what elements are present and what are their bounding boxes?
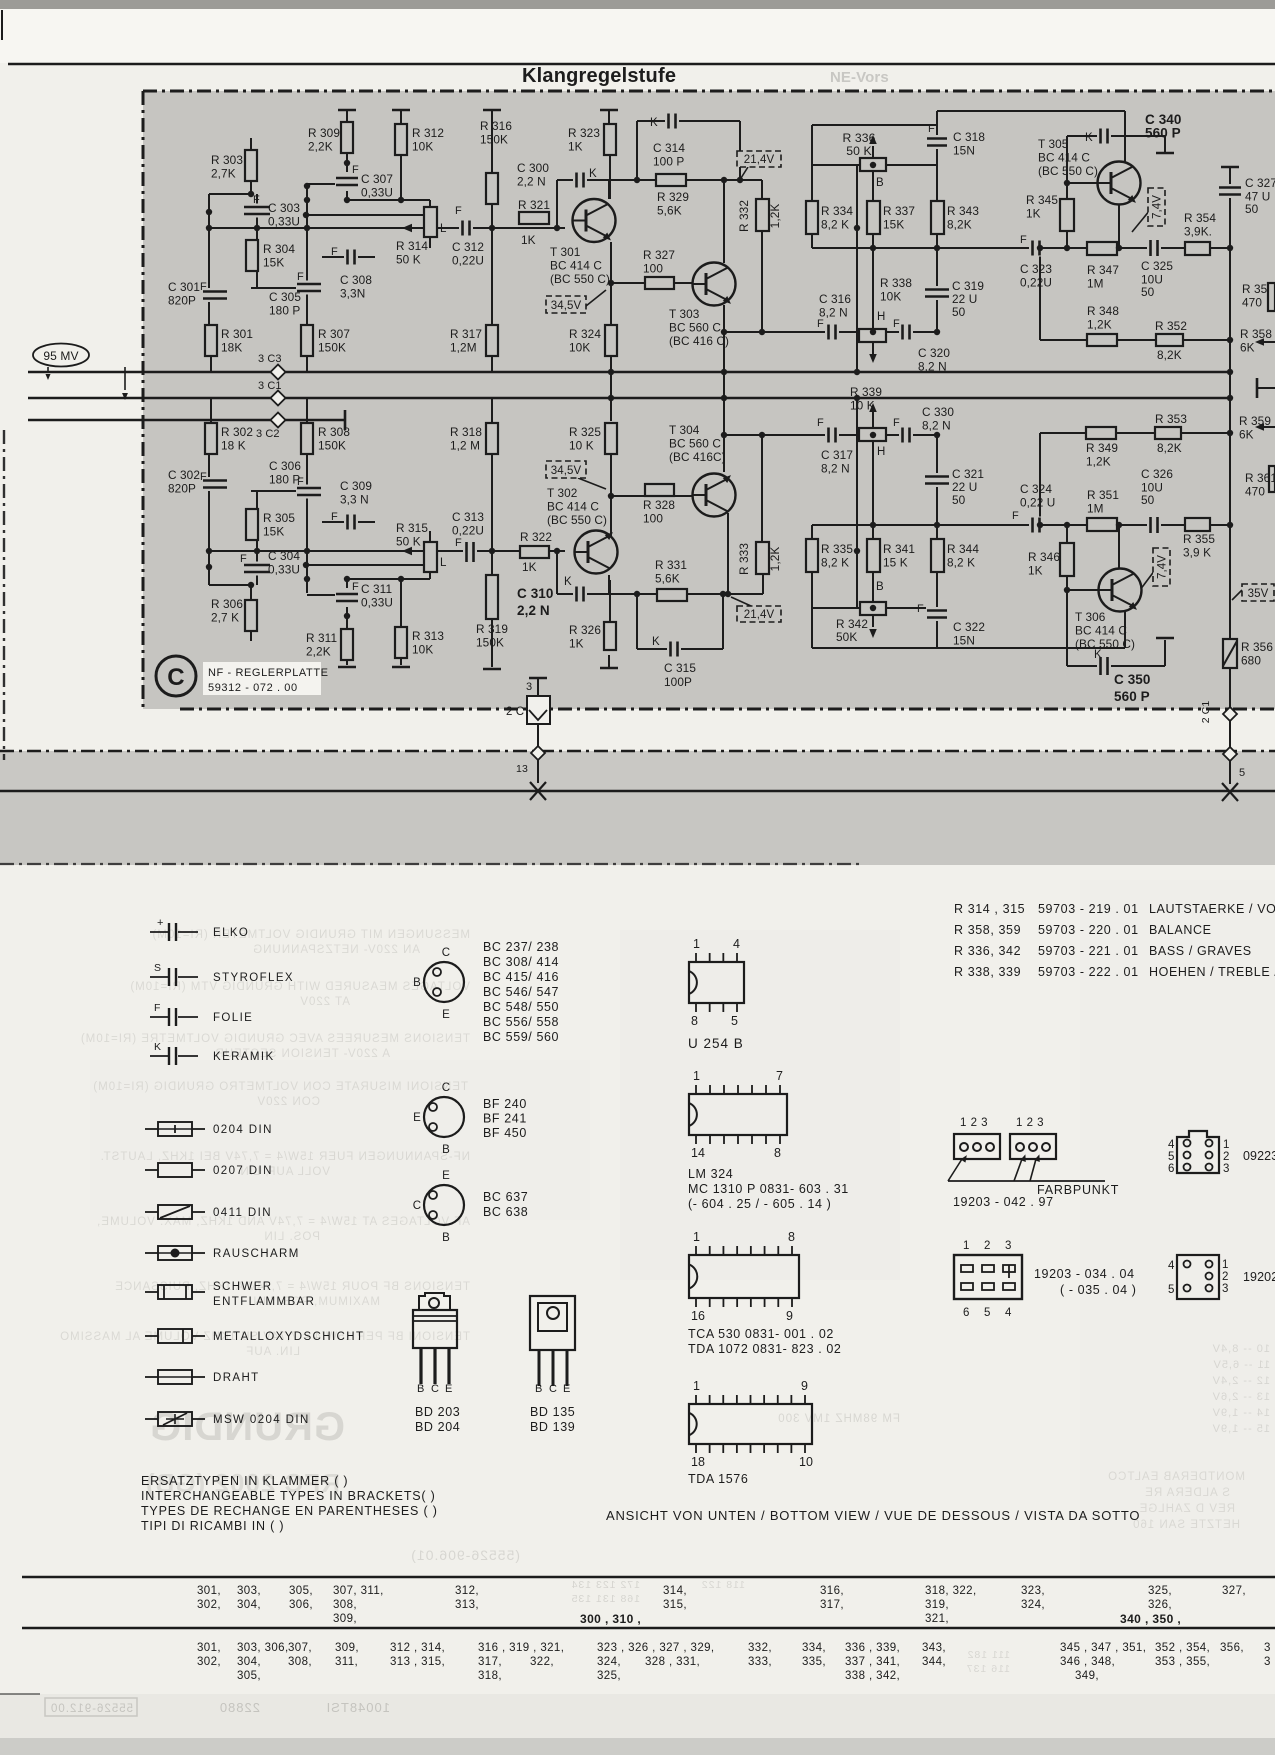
- svg-text:8: 8: [691, 1014, 698, 1028]
- svg-text:353 , 355,: 353 , 355,: [1155, 1656, 1210, 1668]
- svg-text:C 312: C 312: [452, 240, 484, 254]
- svg-text:T 303: T 303: [669, 307, 700, 321]
- svg-text:C 303: C 303: [268, 201, 300, 215]
- svg-text:BF 240: BF 240: [483, 1097, 527, 1111]
- svg-text:8,2 K: 8,2 K: [821, 218, 849, 232]
- svg-text:19203 - 042 . 97: 19203 - 042 . 97: [953, 1195, 1054, 1209]
- svg-text:0,22 U: 0,22 U: [1020, 496, 1055, 510]
- svg-text:9: 9: [801, 1379, 808, 1393]
- svg-text:BC 559/ 560: BC 559/ 560: [483, 1030, 559, 1044]
- svg-text:POS. LIN: POS. LIN: [263, 1231, 320, 1243]
- svg-text:R 309: R 309: [308, 126, 340, 140]
- svg-text:R 322: R 322: [520, 530, 552, 544]
- svg-text:BD 139: BD 139: [530, 1420, 575, 1434]
- svg-text:1K: 1K: [569, 637, 584, 651]
- svg-text:TENSIONS MESUREES AVEC GRUNDIG: TENSIONS MESUREES AVEC GRUNDIG VOLTMETRE…: [80, 1033, 470, 1045]
- svg-text:19202: 19202: [1243, 1270, 1275, 1284]
- svg-text:1,2K: 1,2K: [768, 547, 782, 572]
- svg-text:349,: 349,: [1075, 1670, 1099, 1682]
- svg-text:09223 -: 09223 -: [1243, 1149, 1275, 1163]
- svg-text:8,2 N: 8,2 N: [918, 360, 947, 374]
- svg-text:340 , 350 ,: 340 , 350 ,: [1120, 1612, 1181, 1626]
- svg-text:BC 560 C: BC 560 C: [669, 437, 721, 451]
- svg-text:8,2K: 8,2K: [1157, 441, 1182, 455]
- svg-text:MONTDERAB EALTCO: MONTDERAB EALTCO: [1107, 1471, 1245, 1483]
- svg-text:50: 50: [952, 305, 966, 319]
- svg-text:R 314: R 314: [396, 239, 428, 253]
- svg-text:95 MV: 95 MV: [43, 349, 78, 363]
- svg-text:2,7K: 2,7K: [211, 167, 236, 181]
- svg-text:(BC 550 C): (BC 550 C): [550, 272, 610, 286]
- svg-text:C 306: C 306: [269, 459, 301, 473]
- svg-text:2,7 K: 2,7 K: [211, 611, 239, 625]
- svg-text:301,: 301,: [197, 1585, 221, 1597]
- svg-text:50: 50: [952, 493, 966, 507]
- svg-text:327,: 327,: [1222, 1585, 1246, 1597]
- svg-text:302,: 302,: [197, 1599, 221, 1611]
- svg-text:304,: 304,: [237, 1656, 261, 1668]
- svg-text:680: 680: [1241, 654, 1261, 668]
- svg-text:INTERCHANGEABLE TYPES IN BR: INTERCHANGEABLE TYPES IN BRACKETS( ): [141, 1489, 436, 1503]
- svg-text:1K: 1K: [1026, 207, 1041, 221]
- svg-text:21,4V: 21,4V: [744, 154, 775, 166]
- svg-text:R 307: R 307: [318, 327, 350, 341]
- svg-text:307, 311,: 307, 311,: [333, 1585, 384, 1597]
- svg-text:0,22U: 0,22U: [1020, 276, 1052, 290]
- svg-text:R 355: R 355: [1183, 532, 1215, 546]
- svg-text:2,2 N: 2,2 N: [517, 175, 546, 189]
- svg-text:R 325: R 325: [569, 425, 601, 439]
- svg-text:L: L: [440, 557, 447, 569]
- svg-text:1: 1: [1223, 1139, 1230, 1151]
- svg-text:15K: 15K: [263, 256, 284, 270]
- svg-text:F: F: [893, 318, 900, 330]
- svg-text:1 2 3: 1 2 3: [1016, 1117, 1044, 1129]
- svg-text:0,33U: 0,33U: [268, 215, 300, 229]
- svg-text:ENTFLAMMBAR: ENTFLAMMBAR: [213, 1296, 315, 1308]
- svg-text:F: F: [331, 511, 338, 523]
- svg-text:F: F: [893, 417, 900, 429]
- svg-text:333,: 333,: [748, 1656, 772, 1668]
- svg-text:2: 2: [1222, 1271, 1229, 1283]
- svg-text:13: 13: [516, 763, 528, 775]
- svg-text:304,: 304,: [237, 1599, 261, 1611]
- svg-text:172 123 134: 172 123 134: [571, 1579, 640, 1591]
- svg-text:AT 220V: AT 220V: [299, 996, 350, 1008]
- svg-text:8: 8: [788, 1230, 795, 1244]
- svg-text:R 311: R 311: [306, 631, 337, 645]
- svg-text:55526-912.00: 55526-912.00: [50, 1703, 133, 1715]
- svg-text:C: C: [442, 1082, 450, 1094]
- svg-text:317,: 317,: [478, 1656, 502, 1668]
- svg-text:R 312: R 312: [412, 126, 444, 140]
- svg-text:346 , 348,: 346 , 348,: [1060, 1656, 1115, 1668]
- svg-text:AF VOLTAGES AT 15W/4 = 7,74V A: AF VOLTAGES AT 15W/4 = 7,74V AND 1KHZ, M…: [96, 1216, 470, 1228]
- svg-text:560 P: 560 P: [1114, 689, 1150, 704]
- svg-text:335,: 335,: [802, 1656, 826, 1668]
- svg-text:BD 135: BD 135: [530, 1405, 575, 1419]
- svg-text:2 C: 2 C: [506, 706, 524, 718]
- svg-text:C 305: C 305: [269, 290, 301, 304]
- svg-text:METALLOXYDSCHICHT: METALLOXYDSCHICHT: [213, 1331, 364, 1343]
- svg-text:B: B: [876, 581, 884, 593]
- svg-text:R 347: R 347: [1087, 263, 1119, 277]
- svg-text:R 319: R 319: [476, 622, 508, 636]
- svg-text:15N: 15N: [953, 144, 975, 158]
- svg-text:4: 4: [1005, 1307, 1012, 1319]
- svg-text:1K: 1K: [522, 560, 537, 574]
- svg-text:5,6K: 5,6K: [657, 204, 682, 218]
- svg-text:R 333: R 333: [737, 543, 751, 575]
- svg-text:BD 204: BD 204: [415, 1420, 460, 1434]
- svg-text:C 320: C 320: [918, 346, 950, 360]
- svg-text:22880: 22880: [219, 1700, 260, 1715]
- svg-text:C: C: [167, 664, 184, 691]
- svg-text:R 341: R 341: [883, 542, 915, 556]
- svg-text:(BC 416C): (BC 416C): [669, 450, 726, 464]
- svg-text:5: 5: [731, 1014, 738, 1028]
- svg-text:50: 50: [1245, 202, 1259, 216]
- svg-text:R 343: R 343: [947, 204, 979, 218]
- svg-text:326,: 326,: [1148, 1599, 1172, 1611]
- svg-text:0204 DIN: 0204 DIN: [213, 1124, 273, 1136]
- svg-text:1,2K: 1,2K: [1086, 455, 1111, 469]
- svg-text:10 K: 10 K: [850, 399, 875, 413]
- svg-text:3,9 K: 3,9 K: [1183, 546, 1211, 560]
- svg-text:C 317: C 317: [821, 448, 853, 462]
- svg-text:318,: 318,: [478, 1670, 502, 1682]
- svg-text:100: 100: [643, 262, 663, 276]
- svg-text:C 326: C 326: [1141, 467, 1173, 481]
- svg-text:150K: 150K: [480, 133, 508, 147]
- svg-text:K: K: [652, 636, 660, 648]
- svg-text:C 319: C 319: [952, 279, 984, 293]
- svg-text:BF 450: BF 450: [483, 1126, 527, 1140]
- svg-text:FOLIE: FOLIE: [213, 1012, 253, 1024]
- svg-text:STYROFLEX: STYROFLEX: [213, 972, 294, 984]
- svg-text:ELKO: ELKO: [213, 927, 249, 939]
- svg-text:REV D ZAHLGE: REV D ZAHLGE: [1139, 1503, 1235, 1515]
- svg-text:306,: 306,: [289, 1599, 313, 1611]
- svg-text:8,2 K: 8,2 K: [947, 556, 975, 570]
- svg-text:13 -- 2,6V: 13 -- 2,6V: [1212, 1391, 1270, 1403]
- svg-text:BALANCE: BALANCE: [1149, 923, 1212, 937]
- svg-text:6K: 6K: [1239, 428, 1254, 442]
- svg-text:1K: 1K: [568, 140, 583, 154]
- svg-text:322,: 322,: [530, 1656, 554, 1668]
- svg-text:3,9K.: 3,9K.: [1184, 225, 1212, 239]
- svg-text:F: F: [1020, 234, 1027, 246]
- svg-text:5,6K: 5,6K: [655, 572, 680, 586]
- svg-text:15K: 15K: [263, 525, 284, 539]
- svg-text:C 321: C 321: [952, 467, 984, 481]
- svg-text:311,: 311,: [335, 1656, 358, 1668]
- svg-text:E: E: [413, 1112, 421, 1124]
- svg-text:BASS / GRAVES: BASS / GRAVES: [1149, 944, 1252, 958]
- svg-text:16: 16: [691, 1309, 705, 1323]
- svg-text:116 137: 116 137: [966, 1663, 1010, 1675]
- svg-text:7: 7: [776, 1069, 783, 1083]
- svg-text:F: F: [154, 1002, 161, 1014]
- svg-text:10048TSI: 10048TSI: [326, 1700, 390, 1715]
- svg-text:C 322: C 322: [953, 620, 985, 634]
- svg-text:8,2K: 8,2K: [947, 218, 972, 232]
- svg-text:59703 - 220 . 01: 59703 - 220 . 01: [1038, 923, 1139, 937]
- svg-text:R 328: R 328: [643, 498, 675, 512]
- svg-text:B: B: [535, 1383, 542, 1395]
- svg-text:BC 414 C: BC 414 C: [1038, 151, 1090, 165]
- svg-text:1: 1: [693, 937, 700, 951]
- svg-text:S ALDERA RE: S ALDERA RE: [1144, 1487, 1230, 1499]
- svg-text:R 356: R 356: [1241, 640, 1273, 654]
- svg-text:R 344: R 344: [947, 542, 979, 556]
- svg-text:50: 50: [1141, 493, 1155, 507]
- svg-text:C 318: C 318: [953, 130, 985, 144]
- svg-text:F: F: [1012, 510, 1019, 522]
- svg-text:AN 220V- NETZSPANNUNG: AN 220V- NETZSPANNUNG: [252, 944, 420, 956]
- svg-text:C 325: C 325: [1141, 259, 1173, 273]
- svg-text:C 315: C 315: [664, 661, 696, 675]
- svg-text:C: C: [413, 1200, 421, 1212]
- svg-text:BC 415/ 416: BC 415/ 416: [483, 970, 559, 984]
- svg-text:U 254 B: U 254 B: [688, 1036, 744, 1051]
- svg-text:B: B: [442, 1232, 450, 1244]
- svg-text:R 342: R 342: [836, 617, 868, 631]
- svg-text:R 329: R 329: [657, 190, 689, 204]
- svg-text:3: 3: [1223, 1163, 1230, 1175]
- svg-text:315,: 315,: [663, 1599, 687, 1611]
- svg-text:34,5V: 34,5V: [551, 465, 582, 477]
- svg-text:C 301: C 301: [168, 280, 200, 294]
- svg-text:10K: 10K: [880, 290, 901, 304]
- svg-text:BC 560 C: BC 560 C: [669, 321, 721, 335]
- svg-text:301,: 301,: [197, 1642, 221, 1654]
- svg-text:2,2K: 2,2K: [308, 140, 333, 154]
- svg-text:R 323: R 323: [568, 126, 600, 140]
- svg-text:470: 470: [1245, 485, 1265, 499]
- svg-text:C 324: C 324: [1020, 482, 1052, 496]
- svg-text:0411 DIN: 0411 DIN: [213, 1207, 272, 1219]
- svg-text:BC 546/ 547: BC 546/ 547: [483, 985, 559, 999]
- svg-text:560 P: 560 P: [1145, 126, 1181, 141]
- svg-text:313 , 315,: 313 , 315,: [390, 1656, 445, 1668]
- svg-text:R 305: R 305: [263, 511, 295, 525]
- svg-text:(BC 550 C): (BC 550 C): [1075, 637, 1135, 651]
- svg-text:F: F: [297, 271, 304, 283]
- svg-text:7,4V: 7,4V: [1152, 195, 1164, 219]
- svg-text:336 , 339,: 336 , 339,: [845, 1642, 900, 1654]
- svg-text:F: F: [455, 537, 462, 549]
- svg-text:3: 3: [1264, 1642, 1271, 1654]
- svg-text:BC 548/ 550: BC 548/ 550: [483, 1000, 559, 1014]
- svg-text:308,: 308,: [288, 1656, 312, 1668]
- svg-text:8,2K: 8,2K: [1157, 348, 1182, 362]
- svg-text:T 304: T 304: [669, 423, 700, 437]
- svg-text:14 -- 1,9V: 14 -- 1,9V: [1212, 1407, 1270, 1419]
- svg-text:0,22U: 0,22U: [452, 254, 484, 268]
- svg-text:BC 637: BC 637: [483, 1190, 528, 1204]
- svg-text:0,33U: 0,33U: [268, 563, 300, 577]
- svg-text:TDA 1072 0831- 823 . 02: TDA 1072 0831- 823 . 02: [688, 1342, 842, 1356]
- svg-text:8,2 N: 8,2 N: [819, 306, 848, 320]
- svg-text:C 316: C 316: [819, 292, 851, 306]
- svg-text:R 358: R 358: [1240, 327, 1272, 341]
- svg-text:15N: 15N: [953, 634, 975, 648]
- svg-text:303, 306,: 303, 306,: [237, 1642, 289, 1654]
- svg-text:5: 5: [984, 1307, 991, 1319]
- svg-text:T 301: T 301: [550, 245, 580, 259]
- svg-text:+: +: [157, 917, 164, 929]
- svg-text:150K: 150K: [318, 439, 346, 453]
- svg-text:NF-SPANNUNGEN FUER 15W/4 = 7,7: NF-SPANNUNGEN FUER 15W/4 = 7,74V BEI 1KH…: [100, 1151, 470, 1163]
- svg-text:4: 4: [1168, 1139, 1175, 1151]
- svg-text:R 332: R 332: [737, 200, 751, 232]
- svg-text:10K: 10K: [569, 341, 590, 355]
- svg-text:CON 220V: CON 220V: [256, 1096, 320, 1108]
- svg-text:R 331: R 331: [655, 558, 687, 572]
- svg-text:302,: 302,: [197, 1656, 221, 1668]
- svg-text:C: C: [431, 1383, 439, 1395]
- svg-text:18 K: 18 K: [221, 439, 246, 453]
- svg-text:H: H: [877, 311, 885, 323]
- svg-text:MSW 0204 DIN: MSW 0204 DIN: [213, 1414, 310, 1426]
- svg-text:150K: 150K: [476, 636, 504, 650]
- svg-text:59703 - 222 . 01: 59703 - 222 . 01: [1038, 965, 1139, 979]
- svg-text:F: F: [331, 246, 338, 258]
- svg-text:180 P: 180 P: [269, 473, 300, 487]
- svg-text:1: 1: [1222, 1259, 1229, 1271]
- svg-text:MC 1310 P 0831- 603 . 31: MC 1310 P 0831- 603 . 31: [688, 1182, 849, 1196]
- svg-text:34,5V: 34,5V: [551, 300, 582, 312]
- svg-text:ERSATZTYPEN IN KLAMMER ( ): ERSATZTYPEN IN KLAMMER ( ): [141, 1474, 348, 1488]
- svg-text:325,: 325,: [597, 1670, 621, 1682]
- svg-text:1,2K: 1,2K: [768, 204, 782, 229]
- svg-text:313,: 313,: [455, 1599, 479, 1611]
- svg-text:(55526-906.01): (55526-906.01): [410, 1547, 520, 1563]
- svg-text:R 315: R 315: [396, 521, 428, 535]
- svg-text:ANSICHT VON UNTEN / BOTTOM: ANSICHT VON UNTEN / BOTTOM VIEW / VUE DE…: [606, 1508, 1140, 1523]
- svg-text:C 310: C 310: [517, 586, 554, 601]
- svg-text:2,2 N: 2,2 N: [517, 603, 550, 618]
- svg-text:F: F: [928, 123, 935, 135]
- svg-text:K: K: [1085, 132, 1093, 144]
- svg-text:1,2K: 1,2K: [1087, 318, 1112, 332]
- svg-text:820P: 820P: [168, 482, 196, 496]
- svg-text:12 -- 2,4V: 12 -- 2,4V: [1212, 1375, 1270, 1387]
- svg-text:59312 - 072 . 00: 59312 - 072 . 00: [208, 682, 298, 694]
- svg-text:35V: 35V: [1248, 588, 1269, 600]
- svg-text:332,: 332,: [748, 1642, 772, 1654]
- svg-text:R 317: R 317: [450, 327, 482, 341]
- svg-text:3: 3: [526, 681, 532, 693]
- svg-text:NF - REGLERPLATTE: NF - REGLERPLATTE: [208, 667, 329, 679]
- svg-text:180 P: 180 P: [269, 304, 300, 318]
- svg-text:319,: 319,: [925, 1599, 949, 1611]
- svg-text:5: 5: [1168, 1284, 1175, 1296]
- svg-text:F: F: [200, 471, 207, 483]
- svg-text:8,2 N: 8,2 N: [922, 419, 951, 433]
- svg-text:F: F: [817, 318, 824, 330]
- svg-text:R 301: R 301: [221, 327, 253, 341]
- svg-text:BC 556/ 558: BC 556/ 558: [483, 1015, 559, 1029]
- svg-text:0207 DIN: 0207 DIN: [213, 1165, 273, 1177]
- svg-text:324,: 324,: [597, 1656, 621, 1668]
- svg-text:S: S: [154, 962, 161, 974]
- svg-text:TDA 1576: TDA 1576: [688, 1472, 748, 1486]
- svg-text:F: F: [917, 603, 924, 615]
- svg-text:R 306: R 306: [211, 597, 243, 611]
- svg-text:317,: 317,: [820, 1599, 844, 1611]
- svg-text:T 305: T 305: [1038, 137, 1069, 151]
- svg-text:BF 241: BF 241: [483, 1112, 527, 1126]
- svg-text:316,: 316,: [820, 1585, 844, 1597]
- svg-text:50 K: 50 K: [396, 535, 421, 549]
- svg-text:R 346: R 346: [1028, 550, 1060, 564]
- svg-text:LM 324: LM 324: [688, 1167, 733, 1181]
- svg-text:14: 14: [691, 1146, 705, 1160]
- svg-text:2: 2: [984, 1240, 991, 1252]
- svg-text:22 U: 22 U: [952, 292, 977, 306]
- svg-text:10 -- 8,4V: 10 -- 8,4V: [1212, 1343, 1270, 1355]
- svg-text:R 354: R 354: [1184, 211, 1216, 225]
- svg-text:1K: 1K: [521, 233, 536, 247]
- svg-text:100 P: 100 P: [653, 155, 684, 169]
- svg-text:1,2 M: 1,2 M: [450, 439, 480, 453]
- svg-text:15K: 15K: [883, 218, 904, 232]
- svg-text:3: 3: [1222, 1283, 1229, 1295]
- svg-text:118 122: 118 122: [701, 1579, 745, 1591]
- svg-text:323,: 323,: [1021, 1585, 1045, 1597]
- svg-text:HETZTE SAN 160: HETZTE SAN 160: [1132, 1519, 1240, 1531]
- svg-text:6K: 6K: [1240, 341, 1255, 355]
- svg-text:R 334: R 334: [821, 204, 853, 218]
- svg-text:318, 322,: 318, 322,: [925, 1585, 977, 1597]
- svg-text:BD 203: BD 203: [415, 1405, 460, 1419]
- svg-text:50 K: 50 K: [396, 253, 421, 267]
- svg-text:1,2M: 1,2M: [450, 341, 477, 355]
- svg-text:E: E: [445, 1383, 452, 1395]
- svg-text:111 182: 111 182: [967, 1649, 1010, 1661]
- svg-text:R 352: R 352: [1155, 319, 1187, 333]
- svg-text:F: F: [352, 581, 359, 593]
- svg-text:R 313: R 313: [412, 629, 444, 643]
- svg-text:TYPES DE RECHANGE EN PAREN: TYPES DE RECHANGE EN PARENTHESES ( ): [141, 1504, 438, 1518]
- svg-text:C 350: C 350: [1114, 672, 1151, 687]
- svg-text:R 303: R 303: [211, 153, 243, 167]
- svg-text:R 353: R 353: [1155, 412, 1187, 426]
- svg-text:RAUSCHARM: RAUSCHARM: [213, 1248, 300, 1260]
- svg-text:R 304: R 304: [263, 242, 295, 256]
- svg-text:K: K: [1094, 649, 1102, 661]
- svg-text:C 300: C 300: [517, 161, 549, 175]
- svg-text:KERAMIK: KERAMIK: [213, 1051, 275, 1063]
- svg-text:309,: 309,: [333, 1613, 357, 1625]
- svg-text:352 , 354,: 352 , 354,: [1155, 1642, 1210, 1654]
- svg-text:BC 638: BC 638: [483, 1205, 528, 1219]
- svg-text:3 C3: 3 C3: [258, 353, 282, 365]
- svg-text:1: 1: [693, 1379, 700, 1393]
- svg-text:BC 414 C: BC 414 C: [1075, 624, 1127, 638]
- svg-text:R 318: R 318: [450, 425, 482, 439]
- svg-text:356,: 356,: [1220, 1642, 1244, 1654]
- svg-text:470: 470: [1242, 296, 1262, 310]
- svg-text:15 K: 15 K: [883, 556, 908, 570]
- svg-text:307,: 307,: [288, 1642, 312, 1654]
- svg-text:F: F: [455, 205, 462, 217]
- svg-text:305,: 305,: [289, 1585, 313, 1597]
- svg-text:337 , 341,: 337 , 341,: [845, 1656, 900, 1668]
- svg-text:3,3N: 3,3N: [340, 287, 365, 301]
